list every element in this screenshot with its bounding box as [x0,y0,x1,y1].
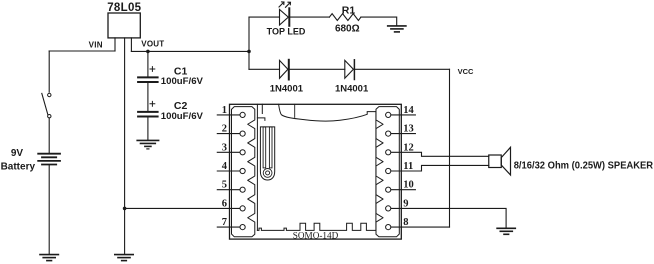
socket notch [257,104,265,120]
svg-text:78L05: 78L05 [107,2,141,14]
ground regulator [115,255,133,261]
svg-text:6: 6 [222,198,227,209]
svg-text:12: 12 [403,142,414,153]
D2 cathode bar [353,60,355,80]
U2 right pin strip [376,107,399,237]
pin 13 leader [391,133,416,135]
svg-text:2: 2 [222,124,227,135]
svg-text:680Ω: 680Ω [335,24,360,35]
C1 plus sign [150,67,155,72]
pin 5 leader [217,189,240,191]
svg-text:R1: R1 [342,5,356,17]
wire pin 6 to ground rail [124,207,240,209]
battery BT1 9V [38,154,60,165]
ground speaker return [497,228,515,234]
ground battery [40,255,58,261]
socket fork bar 2 [269,127,272,168]
svg-text:3: 3 [222,142,227,153]
wire to D1 anode [249,68,280,70]
capacitor C2 [138,112,158,117]
pin 14 leader [391,114,416,116]
C2 plus sign [150,101,155,106]
svg-text:1: 1 [222,105,227,116]
wire to LED anode [249,16,280,18]
svg-text:9V: 9V [11,148,24,159]
socket fork bulb [263,169,272,178]
U1 pin GND lead [124,38,126,254]
regulator U1 78L05 body [108,13,140,38]
svg-text:100uF/6V: 100uF/6V [161,111,204,122]
svg-text:8/16/32 Ohm (0.25W) SPEAKER: 8/16/32 Ohm (0.25W) SPEAKER [514,159,654,171]
socket fork bar 1 [263,127,266,168]
LED cathode bar [288,8,290,26]
socket right edge [375,112,377,231]
LED arrow 1 [279,2,284,7]
wire LED branch vertical [248,17,250,69]
wire VCC rail down [449,69,451,227]
D1 cathode bar [288,60,290,80]
wire battery rail top [48,51,50,92]
svg-text:VIN: VIN [89,40,103,49]
node LED branch junction [247,50,251,54]
svg-text:13: 13 [403,124,414,135]
switch S1 [48,93,51,96]
pin 3 leader [217,151,240,153]
pin 1 leader [217,114,240,116]
U1 pin VIN lead [114,38,116,51]
pin 10 leader [391,189,416,191]
U1 pin VOUT lead [130,38,132,52]
diode D1 1N4001 triangle [280,60,288,78]
socket left edge [256,104,258,230]
speaker horn [501,147,510,175]
wire pin 11 to speaker [391,165,489,171]
svg-text:C2: C2 [174,100,188,112]
resistor R1 [329,14,361,21]
svg-text:5: 5 [222,180,227,191]
svg-text:Battery: Battery [1,161,36,172]
svg-text:SOMO-14D: SOMO-14D [293,230,339,240]
wire D2 to VCC corner [355,68,449,70]
svg-text:7: 7 [222,217,227,228]
pin 7 leader [217,226,240,228]
pin 4 leader [217,170,240,172]
wire battery to ground [48,165,50,254]
svg-text:TOP LED: TOP LED [267,26,306,36]
svg-text:1N4001: 1N4001 [270,83,304,94]
wire switch to battery [48,118,50,153]
module U2 SOMO-14D outline [230,104,402,239]
svg-text:1N4001: 1N4001 [335,83,369,94]
wire LED to R1 [290,16,329,18]
svg-text:VOUT: VOUT [141,40,164,49]
socket fork outer [260,127,274,180]
svg-text:4: 4 [222,161,228,172]
node pin6 junction [123,207,127,211]
wire D1 to D2 [290,68,345,70]
socket bottom edge with tabs [257,223,376,230]
wire pin 9 to ground [391,208,506,228]
svg-text:10: 10 [403,180,414,191]
diode D2 1N4001 triangle [345,60,354,78]
wire VOUT rail [131,50,249,52]
wire C2 to ground [147,118,149,140]
wire VOUT to C1 [147,51,149,76]
svg-text:14: 14 [403,105,414,116]
U2 left pin strip [232,107,255,237]
svg-text:8: 8 [403,217,408,228]
ground C2 [137,140,158,149]
svg-text:VCC: VCC [458,67,474,76]
capacitor C1 [138,77,158,82]
socket divider [294,104,296,117]
svg-text:100uF/6V: 100uF/6V [161,76,204,87]
wire VIN to battery rail [49,50,115,52]
wire R1 to ground [361,17,397,26]
wire C1 to C2 [147,83,149,111]
svg-text:11: 11 [403,161,413,172]
wire VCC to pin 8 [391,226,450,228]
LED arrow 2 [286,2,291,7]
ground R1 [388,26,406,32]
svg-text:9: 9 [403,198,408,209]
pin 2 leader [217,133,240,135]
LED D3 TOP LED triangle [280,9,289,25]
socket card curve [279,104,376,121]
node VOUT junction [146,50,150,54]
right pads [386,112,391,229]
left pads [240,112,245,229]
speaker LS1 coil box [489,155,502,168]
wire pin 12 to speaker [391,152,489,156]
